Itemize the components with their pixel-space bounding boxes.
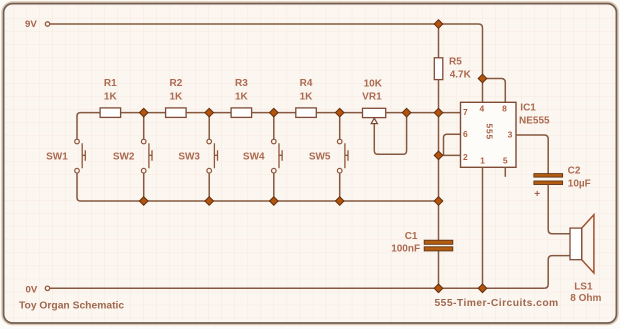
capacitor C1 <box>424 240 453 251</box>
svg-text:10K: 10K <box>364 78 383 89</box>
wire SW1 bottom <box>77 173 81 201</box>
svg-text:SW5: SW5 <box>309 151 331 162</box>
wire SW2 top <box>143 113 145 140</box>
svg-text:NE555: NE555 <box>519 115 550 126</box>
speaker LS1 <box>570 215 594 273</box>
wire resistor chain left end down to SW1 <box>77 113 100 140</box>
svg-text:R4: R4 <box>300 78 313 89</box>
wire pin 1 to 0V bus <box>482 167 484 288</box>
svg-text:1K: 1K <box>104 91 118 102</box>
capacitor C2 <box>534 174 563 200</box>
junction VR1 wiper return <box>402 108 411 117</box>
svg-text:1K: 1K <box>235 91 249 102</box>
wire SW4 bottom <box>273 173 275 201</box>
junction bus SW3 <box>205 197 214 206</box>
svg-text:+: + <box>534 189 540 200</box>
switch SW1 <box>75 139 86 173</box>
label R1 1K <box>104 78 118 102</box>
svg-text:R2: R2 <box>170 78 183 89</box>
wire pin 5 stub <box>504 167 506 177</box>
junction pin 2 <box>434 151 443 160</box>
svg-text:1: 1 <box>480 156 485 166</box>
svg-text:C2: C2 <box>568 165 581 176</box>
junction R4-VR1 / SW5 <box>335 108 344 117</box>
svg-text:2: 2 <box>463 152 468 162</box>
svg-text:SW2: SW2 <box>113 151 135 162</box>
wire SW4 top <box>273 113 275 140</box>
wire C1 to 0V bus <box>438 251 440 288</box>
wire pin 2 <box>439 154 461 156</box>
wire R5 bottom <box>438 80 440 113</box>
svg-text:9V: 9V <box>25 19 37 30</box>
wire R1 to R2 <box>121 112 166 114</box>
junction bus SW5 <box>335 197 344 206</box>
resistor R1 <box>100 108 121 118</box>
junction bus main rail <box>434 197 443 206</box>
svg-text:555: 555 <box>484 124 494 141</box>
junction R2-R3 / SW3 <box>205 108 214 117</box>
svg-text:Toy Organ Schematic: Toy Organ Schematic <box>19 301 124 312</box>
wire VR1 to pin 7 <box>386 112 461 114</box>
wire C2 to speaker top <box>548 185 570 234</box>
wire SW2 bottom <box>143 173 145 201</box>
junction bus SW4 <box>269 197 278 206</box>
svg-text:6: 6 <box>463 129 468 139</box>
svg-text:10µF: 10µF <box>568 178 591 189</box>
svg-text:SW3: SW3 <box>178 151 200 162</box>
label VR1 10K <box>362 78 383 102</box>
wire R5 top <box>438 24 440 58</box>
resistor R5 <box>434 58 443 80</box>
resistor R3 <box>231 108 252 118</box>
svg-text:8 Ohm: 8 Ohm <box>570 293 601 304</box>
label R2 1K <box>170 78 184 102</box>
net 9V terminal <box>25 19 50 30</box>
wire 9V rail to pin 4 <box>50 24 483 102</box>
svg-text:100nF: 100nF <box>391 243 420 254</box>
label R3 1K <box>235 78 249 102</box>
potentiometer VR1 <box>363 108 386 123</box>
wire R4 to VR1 <box>316 112 362 114</box>
junction C1 / 0V bus <box>434 284 443 293</box>
svg-text:SW1: SW1 <box>46 151 68 162</box>
resistor R2 <box>166 108 187 118</box>
svg-text:1K: 1K <box>300 91 314 102</box>
svg-text:IC1: IC1 <box>520 103 536 114</box>
label IC1 NE555 <box>519 103 550 127</box>
wire SW3 bottom <box>208 173 210 201</box>
label R4 1K <box>300 78 314 102</box>
label R5 4.7K <box>449 56 472 80</box>
svg-text:VR1: VR1 <box>362 92 382 103</box>
wire main vertical rail <box>438 113 440 241</box>
wire speaker bottom to 0V bus <box>544 256 570 289</box>
junction pin1 / 0V bus <box>478 284 487 293</box>
junction R1-R2 / SW2 <box>139 108 148 117</box>
svg-text:R3: R3 <box>235 78 248 89</box>
wire SW3 top <box>208 113 210 140</box>
wire pin 6 jog <box>444 134 461 155</box>
svg-text:7: 7 <box>463 107 468 117</box>
switch SW4 <box>272 139 283 173</box>
svg-text:8: 8 <box>502 104 507 114</box>
switch SW2 <box>141 139 152 173</box>
junction bus SW2 <box>139 197 148 206</box>
junction chain / main rail <box>434 108 443 117</box>
wire SW5 bottom <box>339 173 341 201</box>
svg-text:555-Timer-Circuits.com: 555-Timer-Circuits.com <box>435 298 559 309</box>
svg-text:0V: 0V <box>26 285 38 296</box>
wire 0V bus <box>50 287 544 289</box>
net 0V terminal <box>26 285 50 296</box>
switch SW3 <box>207 139 218 173</box>
svg-text:4.7K: 4.7K <box>450 70 472 81</box>
junction 9V rail / R5 <box>434 20 443 29</box>
wire R2 to R3 <box>186 112 231 114</box>
wire pin 8 branch <box>483 79 506 103</box>
junction pin4 / pin8 branch <box>478 74 487 83</box>
wire R3 to R4 <box>252 112 296 114</box>
label LS1 8 Ohm <box>570 282 601 304</box>
svg-text:C1: C1 <box>405 231 418 242</box>
label C1 100nF <box>391 231 420 255</box>
wire switch bus <box>81 200 439 202</box>
svg-text:1K: 1K <box>170 91 184 102</box>
op-amp timer IC1 NE555 <box>461 102 517 167</box>
svg-text:5: 5 <box>503 155 508 165</box>
junction R3-R4 / SW4 <box>269 108 278 117</box>
svg-text:SW4: SW4 <box>243 151 265 162</box>
label C2 10uF <box>568 165 591 189</box>
switch SW5 <box>337 139 348 173</box>
svg-text:LS1: LS1 <box>574 282 593 293</box>
svg-text:R5: R5 <box>449 56 462 67</box>
wire VR1 wiper return <box>374 113 406 155</box>
svg-text:4: 4 <box>480 104 485 114</box>
wire SW5 top <box>339 113 341 140</box>
svg-text:3: 3 <box>508 130 513 140</box>
wire pin 3 to C2 <box>516 135 548 174</box>
svg-text:R1: R1 <box>104 78 117 89</box>
resistor R4 <box>296 108 317 118</box>
